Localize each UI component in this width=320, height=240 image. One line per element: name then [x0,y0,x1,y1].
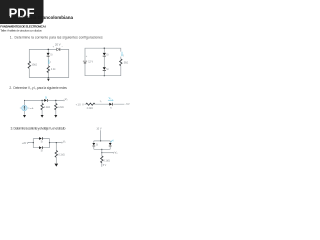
svg-text:−5 V: −5 V [125,103,130,106]
svg-text:0.1kΩ: 0.1kΩ [58,153,65,156]
svg-text:10kΩ: 10kΩ [31,64,37,67]
svg-text:+20 V: +20 V [22,142,29,145]
svg-text:Si: Si [106,53,109,56]
svg-text:10 V: 10 V [96,127,101,130]
svg-text:20 V: 20 V [55,43,61,47]
svg-text:Si: Si [96,144,99,147]
svg-text:−: − [61,45,63,48]
svg-text:Si: Si [41,140,44,143]
svg-text:12 V: 12 V [88,61,93,64]
svg-text:2. Determine V₀ y I₀ para la: 2. Determine V₀ y I₀ para la siguiente r… [9,86,67,90]
svg-text:V₀: V₀ [115,150,118,154]
svg-text:I: I [124,54,125,57]
svg-text:+: + [86,55,88,58]
svg-text:2.2kΩ: 2.2kΩ [87,107,94,110]
svg-text:2.2kΩ: 2.2kΩ [44,106,51,109]
svg-text:0.1kΩ: 0.1kΩ [104,160,111,163]
svg-text:I₀: I₀ [100,100,102,103]
svg-text:1. Determine la corriente par: 1. Determine la corriente para las sigui… [10,36,103,40]
svg-text:Universitaria Grancolombiana: Universitaria Grancolombiana [9,15,74,20]
svg-text:V₀: V₀ [65,97,68,101]
svg-text:Si: Si [50,54,53,57]
svg-text:Taller: Análisis de circuitos: Taller: Análisis de circuitos con diodos [0,28,42,32]
svg-text:56Ω: 56Ω [124,62,129,65]
svg-text:3. Determine la corriente y e: 3. Determine la corriente y el voltaje V… [11,127,66,131]
svg-text:V₀: V₀ [63,139,66,143]
svg-text:Si: Si [41,150,44,153]
svg-text:I: I [51,61,52,64]
svg-text:5 mA: 5 mA [28,107,34,110]
svg-text:Si: Si [106,68,109,71]
svg-text:Si: Si [110,107,112,109]
svg-text:I: I [113,139,114,142]
svg-text:1.2kΩ: 1.2kΩ [57,106,64,109]
svg-text:V₀: V₀ [109,97,112,100]
svg-text:2.2k: 2.2k [51,68,56,71]
svg-text:Si: Si [45,96,48,99]
svg-text:I: I [20,107,21,110]
svg-text:5 V: 5 V [103,164,107,167]
svg-text:+10 V: +10 V [76,103,85,106]
